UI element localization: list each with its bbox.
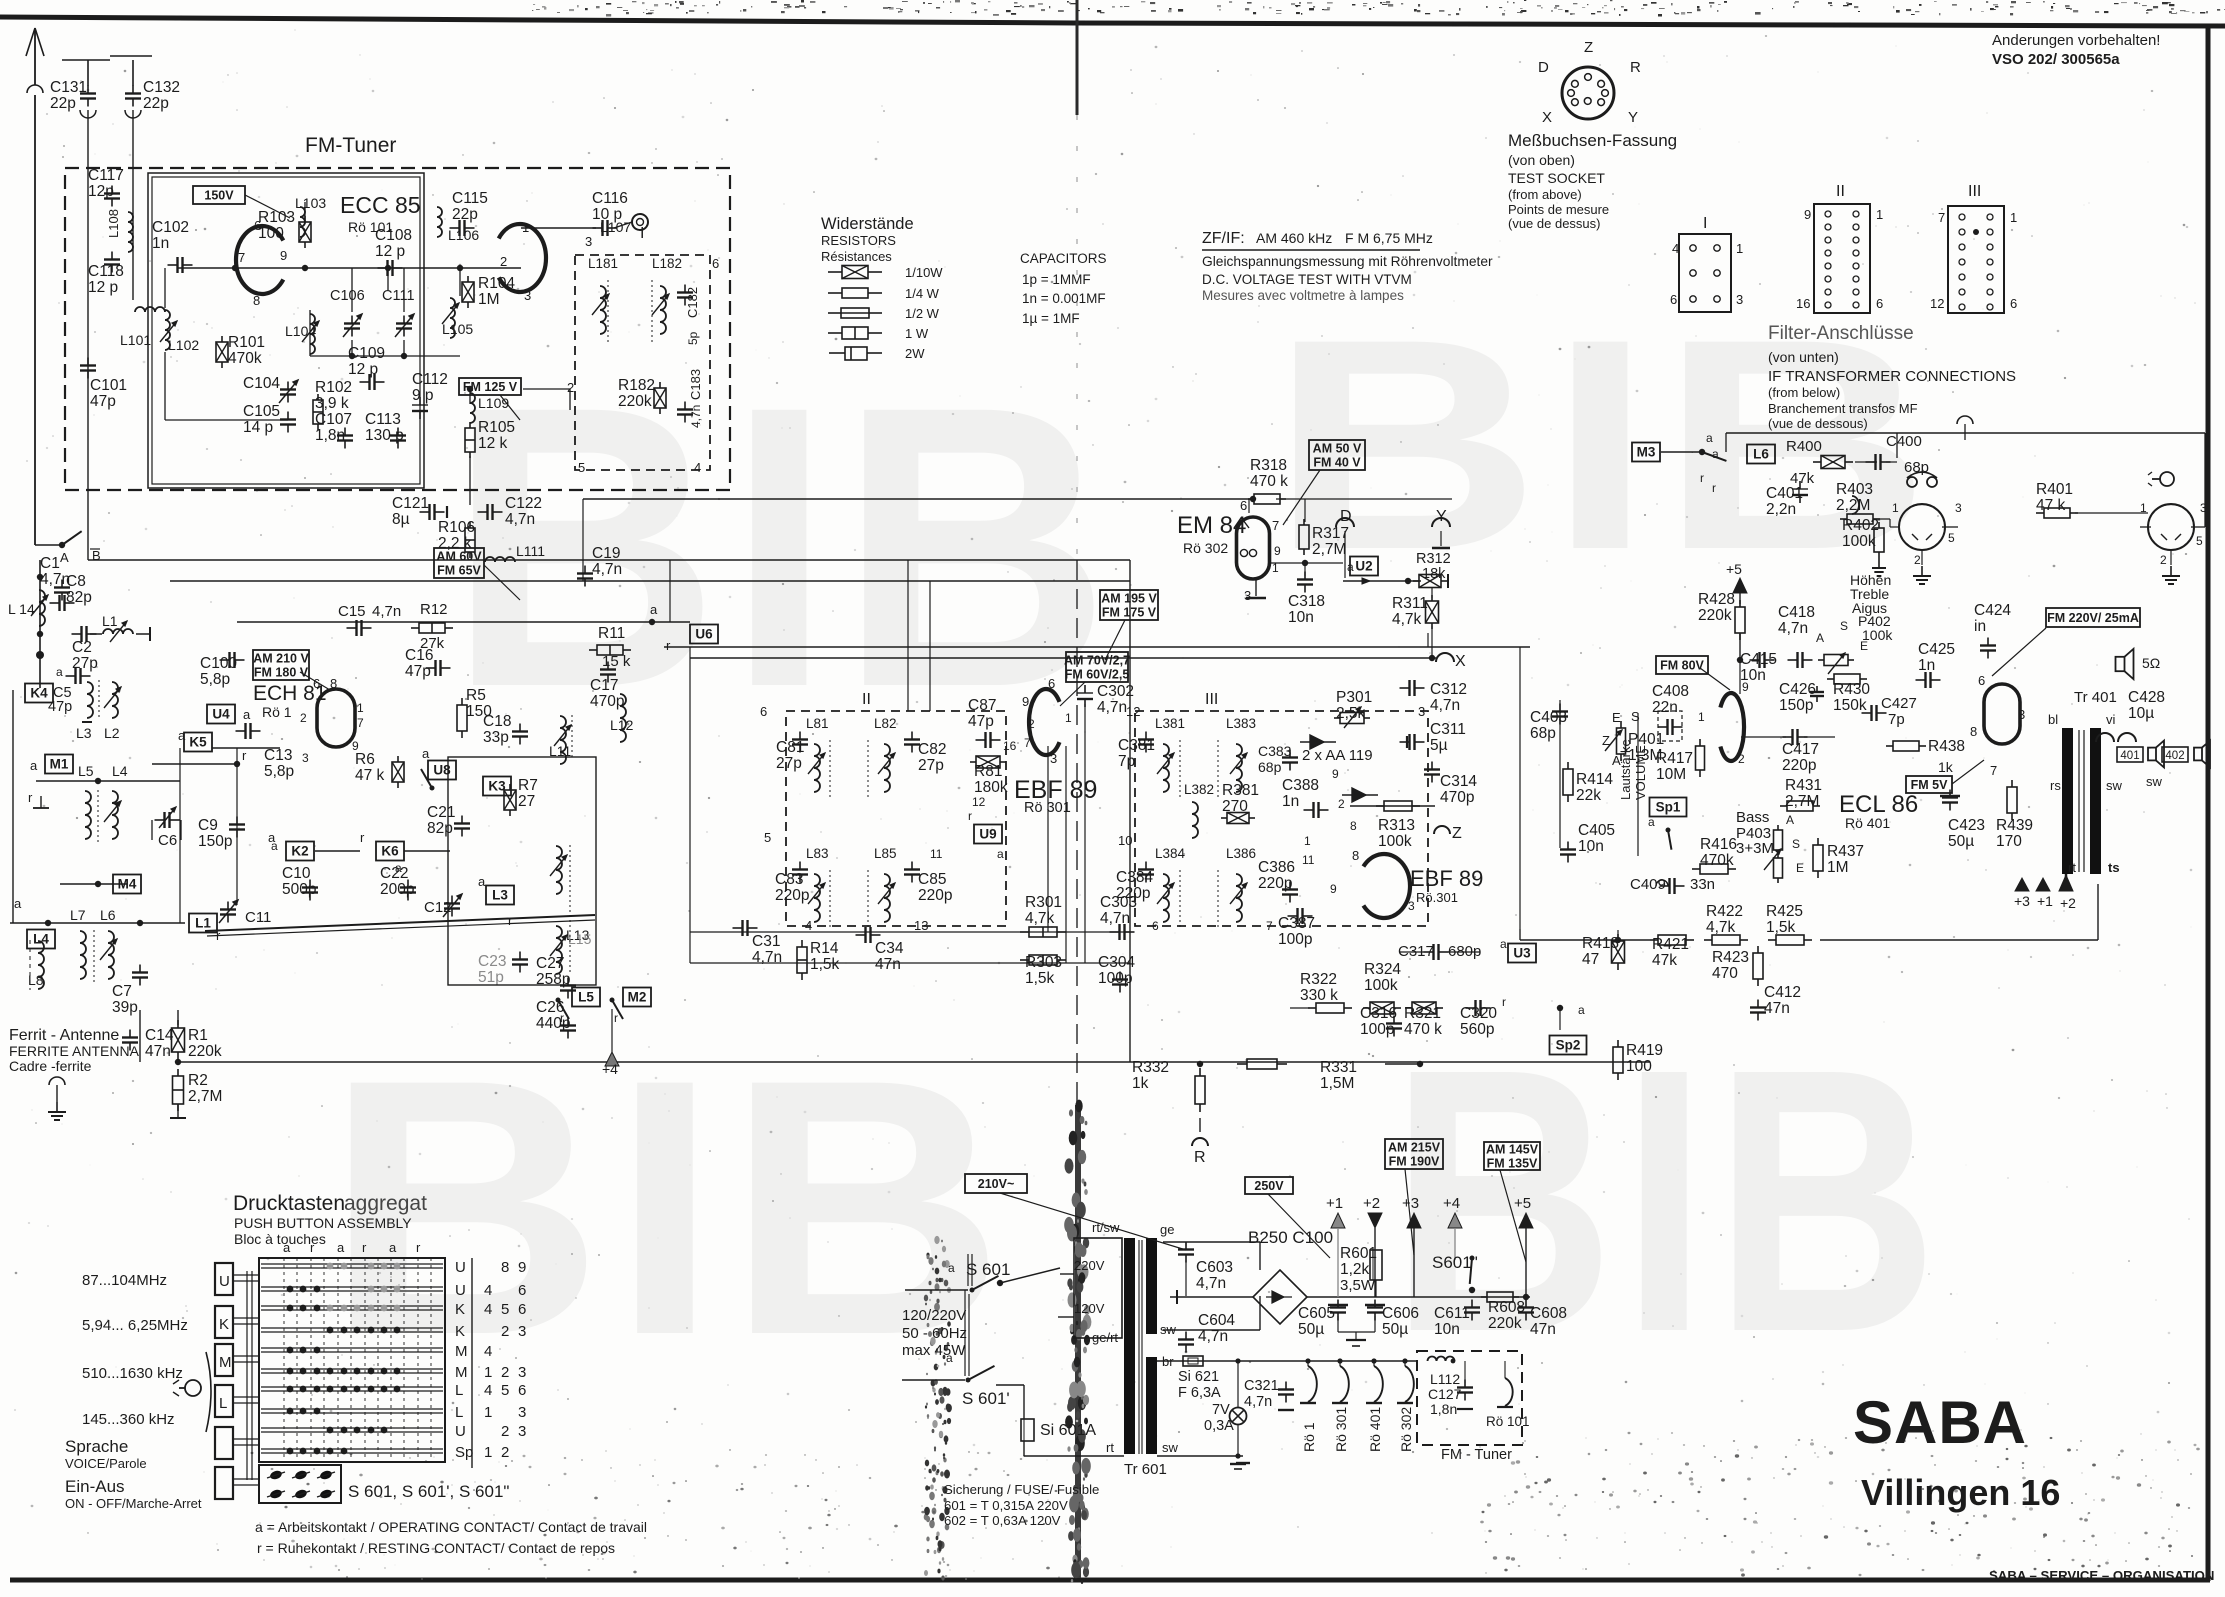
wire <box>80 92 96 94</box>
svg-text:C8: C8 <box>66 573 86 590</box>
wire <box>1185 1332 1187 1340</box>
wire <box>373 374 375 390</box>
box <box>1821 456 1845 469</box>
shape <box>116 801 121 806</box>
svg-text:22k: 22k <box>1576 787 1601 804</box>
shape <box>1253 1270 1307 1324</box>
wire <box>337 434 353 436</box>
wire <box>60 883 127 885</box>
wire <box>1269 562 1343 564</box>
wire <box>1424 773 1440 775</box>
svg-text:a: a <box>30 758 38 773</box>
svg-text:170: 170 <box>1996 833 2022 850</box>
junction <box>314 1448 321 1455</box>
wire <box>1412 805 1420 807</box>
svg-text:C106: C106 <box>330 288 365 304</box>
wire <box>454 827 470 829</box>
wire <box>1481 1007 1491 1009</box>
svg-text:L4: L4 <box>112 763 128 779</box>
wire <box>419 411 421 419</box>
svg-text:ge: ge <box>1160 1222 1174 1237</box>
wire <box>1457 1391 1473 1393</box>
wire <box>1283 470 1320 525</box>
wire <box>1739 660 1741 694</box>
svg-text:C34: C34 <box>875 940 904 957</box>
junction <box>368 1263 375 1270</box>
wire <box>493 511 503 513</box>
wire <box>451 909 453 917</box>
svg-text:Rö 401: Rö 401 <box>1845 815 1890 831</box>
wire <box>1374 1316 1376 1332</box>
stroke <box>87 682 93 718</box>
junction <box>368 1368 375 1375</box>
box <box>1617 728 1626 754</box>
wire <box>403 329 405 337</box>
circle <box>1568 90 1575 97</box>
wire <box>1817 871 1819 878</box>
svg-text:R317: R317 <box>1312 525 1349 542</box>
wire <box>2191 526 2205 528</box>
junction <box>137 920 143 926</box>
box <box>1774 830 1783 850</box>
svg-text:M: M <box>455 1364 468 1381</box>
wire <box>463 220 465 236</box>
svg-text:R601: R601 <box>1340 1245 1377 1262</box>
svg-text:U6: U6 <box>695 627 713 642</box>
svg-text:470 k: 470 k <box>1404 1021 1442 1038</box>
svg-text:IF TRANSFORMER CONNECTIONS: IF TRANSFORMER CONNECTIONS <box>1768 368 2016 385</box>
shape <box>293 380 298 385</box>
wire <box>519 724 521 732</box>
wire <box>1916 679 1926 681</box>
wire <box>1415 741 1425 743</box>
svg-text:r: r <box>560 1011 564 1025</box>
svg-text:R12: R12 <box>420 601 448 618</box>
wire <box>1666 719 1668 735</box>
svg-text:C10: C10 <box>282 865 311 882</box>
wire <box>1394 1007 1401 1009</box>
svg-text:a: a <box>283 1240 291 1255</box>
svg-text:9: 9 <box>1804 207 1811 222</box>
svg-text:III: III <box>1968 183 1981 200</box>
wire <box>878 883 895 904</box>
svg-text:47n: 47n <box>1764 1000 1790 1017</box>
wire <box>1334 717 1340 719</box>
svg-text:R400: R400 <box>1786 438 1822 455</box>
wire <box>2140 526 2151 528</box>
wire <box>558 1000 569 1019</box>
shape <box>122 621 127 626</box>
wire <box>486 504 488 520</box>
svg-text:C13: C13 <box>264 747 292 764</box>
svg-text:L1: L1 <box>102 613 118 629</box>
wire <box>584 566 586 574</box>
wire <box>976 756 1000 768</box>
svg-text:2 x AA 119: 2 x AA 119 <box>1302 747 1373 764</box>
svg-text:L109: L109 <box>478 395 509 411</box>
wire <box>1949 790 1951 798</box>
box <box>193 186 245 204</box>
circle <box>1959 214 1965 220</box>
wire <box>450 227 460 229</box>
box <box>1813 845 1823 871</box>
svg-text:AM 195 V: AM 195 V <box>1101 591 1157 605</box>
circle <box>1598 99 1605 106</box>
box <box>1412 1002 1436 1014</box>
wire <box>1163 1329 1260 1331</box>
wire <box>577 577 593 579</box>
wire <box>39 560 41 688</box>
wire <box>1457 1408 1473 1410</box>
wire <box>1668 830 1671 850</box>
svg-text:47n: 47n <box>145 1043 171 1060</box>
wire <box>261 1263 443 1265</box>
shape <box>562 935 567 940</box>
svg-text:7: 7 <box>1272 518 1279 533</box>
wire <box>411 627 419 629</box>
wire <box>512 958 528 960</box>
wire <box>1866 461 1876 463</box>
wire <box>904 743 920 745</box>
svg-text:3: 3 <box>1408 899 1415 913</box>
shape <box>604 294 609 299</box>
wire <box>104 258 120 260</box>
shape <box>2036 878 2050 891</box>
wire <box>677 291 693 293</box>
svg-text:L: L <box>455 1404 463 1421</box>
svg-text:47n: 47n <box>1530 1321 1556 1338</box>
wire <box>1431 762 1433 770</box>
box <box>1747 445 1775 464</box>
wire <box>177 1104 179 1111</box>
wire <box>236 748 238 905</box>
wire <box>1344 531 1346 578</box>
wire <box>87 99 89 107</box>
wire <box>1386 1027 1402 1029</box>
circle <box>1825 237 1831 243</box>
wire <box>1919 583 1925 585</box>
wire <box>478 511 488 513</box>
wire <box>181 257 183 273</box>
svg-text:1: 1 <box>1698 710 1705 724</box>
wire <box>829 740 831 800</box>
svg-text:FM 135V: FM 135V <box>1487 1156 1538 1170</box>
box <box>1487 1292 1513 1302</box>
wire <box>1304 563 1306 576</box>
svg-text:6: 6 <box>313 676 320 691</box>
wire <box>1304 809 1314 811</box>
svg-text:C108: C108 <box>375 227 412 244</box>
circle <box>1959 289 1965 295</box>
junction <box>1557 1005 1563 1011</box>
svg-text:C417: C417 <box>1782 741 1819 758</box>
wire <box>261 1408 443 1410</box>
svg-text:L: L <box>455 1382 463 1399</box>
wire <box>1525 1228 1527 1297</box>
wire <box>1047 746 1049 932</box>
wire <box>2152 478 2160 480</box>
svg-text:a: a <box>997 847 1004 861</box>
wire <box>904 738 920 740</box>
wire <box>1763 652 1765 668</box>
wire <box>1057 931 1066 933</box>
wire <box>233 1438 259 1440</box>
wire <box>441 667 451 669</box>
svg-text:C321: C321 <box>1244 1378 1279 1394</box>
junction <box>327 1386 334 1393</box>
wire <box>868 332 882 334</box>
svg-text:C127: C127 <box>1428 1386 1462 1402</box>
svg-text:L5: L5 <box>578 990 594 1005</box>
svg-text:Rö 1: Rö 1 <box>262 704 292 720</box>
box <box>1696 746 1705 770</box>
svg-text:11: 11 <box>930 847 943 861</box>
wire <box>1796 729 1798 745</box>
circle <box>1959 259 1965 265</box>
box <box>113 875 141 894</box>
wire <box>972 1276 998 1290</box>
wire <box>344 441 346 449</box>
svg-text:4,7n: 4,7n <box>689 405 703 428</box>
svg-text:K4: K4 <box>30 686 48 701</box>
svg-text:r: r <box>310 1240 315 1255</box>
wire <box>1525 1300 1527 1308</box>
shape <box>1912 534 1918 540</box>
wire <box>1881 461 1891 463</box>
svg-text:2: 2 <box>1914 553 1921 567</box>
wire <box>1112 978 1128 980</box>
wire <box>1470 1258 1472 1284</box>
wire <box>1363 1007 1370 1009</box>
circle <box>1959 304 1965 310</box>
wire <box>1145 862 1147 870</box>
wire <box>1077 692 1093 694</box>
wire <box>1560 853 1576 855</box>
box <box>1021 1419 1034 1441</box>
wire <box>850 347 852 360</box>
circle <box>1853 237 1859 243</box>
svg-text:47: 47 <box>1582 951 1599 968</box>
svg-text:ECC 85: ECC 85 <box>340 192 421 218</box>
wire <box>183 264 193 266</box>
svg-text:470: 470 <box>1712 965 1738 982</box>
wire <box>417 1258 419 1462</box>
svg-text:1 W: 1 W <box>905 326 929 341</box>
wire <box>828 292 842 294</box>
svg-text:C316: C316 <box>1360 1005 1397 1022</box>
box <box>1550 1036 1587 1055</box>
svg-text:4: 4 <box>484 1301 492 1318</box>
wire <box>1199 1118 1201 1132</box>
box <box>1384 801 1412 811</box>
box <box>1563 769 1573 795</box>
svg-text:50µ: 50µ <box>1382 1321 1408 1338</box>
svg-text:39p: 39p <box>112 999 138 1016</box>
svg-text:C111: C111 <box>382 288 415 304</box>
wire <box>87 60 89 86</box>
wire <box>1199 1068 1201 1076</box>
svg-text:47p: 47p <box>968 713 994 730</box>
stroke <box>450 298 455 338</box>
circle <box>1825 289 1831 295</box>
wire <box>219 900 238 923</box>
wire <box>1777 878 1779 883</box>
wire <box>1739 600 1741 607</box>
svg-text:10n: 10n <box>1288 609 1314 626</box>
junction <box>341 1305 348 1312</box>
circle <box>1571 80 1578 87</box>
svg-text:R422: R422 <box>1706 903 1743 920</box>
wire <box>2075 512 2148 514</box>
svg-text:r: r <box>360 830 365 845</box>
box <box>1735 607 1745 633</box>
wire <box>1875 705 1877 721</box>
wire <box>323 1258 325 1462</box>
junction <box>966 1378 971 1383</box>
box <box>299 222 311 242</box>
wire <box>611 1009 613 1052</box>
svg-text:in: in <box>1974 618 1986 635</box>
wire <box>34 30 36 85</box>
svg-text:R401: R401 <box>2036 481 2073 498</box>
svg-text:6: 6 <box>518 1382 526 1399</box>
wire <box>1289 882 1291 890</box>
junction <box>368 1327 375 1334</box>
box <box>1074 1238 1122 1338</box>
svg-text:2: 2 <box>1338 797 1345 811</box>
wire <box>1519 929 1521 940</box>
wire <box>377 1258 379 1462</box>
wire <box>2165 579 2177 581</box>
svg-text:Rö.301: Rö.301 <box>1416 890 1458 905</box>
box <box>1508 944 1536 963</box>
wire <box>1820 939 2098 941</box>
wire <box>828 312 841 314</box>
wire <box>465 439 475 441</box>
wire <box>1740 939 1748 941</box>
svg-text:C314: C314 <box>1440 773 1477 790</box>
wire <box>1757 979 1759 986</box>
shape <box>2156 741 2164 768</box>
wire <box>1178 1253 1194 1255</box>
svg-text:ts: ts <box>2108 860 2120 875</box>
svg-text:2,7M: 2,7M <box>188 1088 222 1105</box>
junction <box>1371 1358 1376 1363</box>
svg-text:2: 2 <box>1028 717 1035 731</box>
wire <box>1405 1007 1412 1009</box>
svg-text:+3: +3 <box>2014 893 2030 909</box>
svg-text:C1: C1 <box>40 555 60 572</box>
wire <box>392 762 404 782</box>
wire <box>1828 653 1845 674</box>
svg-text:L384: L384 <box>1155 846 1186 861</box>
shape <box>2125 649 2134 679</box>
wire <box>690 657 1436 659</box>
junction <box>287 1347 294 1354</box>
svg-text:1/2 W: 1/2 W <box>905 306 940 321</box>
svg-text:+5: +5 <box>1726 561 1742 577</box>
wire <box>1366 1402 1382 1404</box>
wire <box>36 780 180 782</box>
wire <box>1179 740 1181 800</box>
svg-text:Branchement transfos MF: Branchement transfos MF <box>1768 401 1918 416</box>
junction <box>970 1288 975 1293</box>
box <box>148 173 424 488</box>
wire <box>310 1258 312 1462</box>
wire <box>801 973 803 980</box>
wire <box>1878 522 1880 528</box>
wire <box>350 1258 352 1462</box>
box <box>1188 1358 1198 1364</box>
svg-text:3: 3 <box>2200 501 2207 515</box>
svg-text:5: 5 <box>501 1382 509 1399</box>
wire <box>684 298 686 306</box>
wire <box>1232 1410 1244 1422</box>
wire <box>1337 1313 1339 1321</box>
wire <box>792 743 808 745</box>
wire <box>375 381 385 383</box>
wire <box>2011 813 2013 820</box>
wire <box>216 342 228 362</box>
box <box>1658 711 1682 741</box>
wire <box>1552 710 1568 712</box>
wire <box>1303 915 1313 917</box>
wire <box>1464 1393 1466 1401</box>
wire <box>1559 704 1561 712</box>
svg-text:AM 460 kHz: AM 460 kHz <box>1256 230 1332 246</box>
svg-text:max 45W: max 45W <box>902 1342 966 1359</box>
svg-text:rs: rs <box>2050 778 2061 793</box>
junction <box>457 265 463 271</box>
box <box>483 777 511 796</box>
wire <box>451 896 453 904</box>
junction <box>394 1368 401 1375</box>
stroke <box>1505 1378 1513 1406</box>
wire <box>976 739 986 741</box>
wire <box>181 1061 1650 1063</box>
wire <box>233 1402 259 1404</box>
junction <box>232 265 238 271</box>
wire <box>125 97 141 99</box>
box <box>172 1028 185 1052</box>
stroke <box>814 874 820 922</box>
wire <box>748 927 758 929</box>
wire <box>168 812 170 828</box>
wire <box>287 412 289 420</box>
junction <box>1737 657 1743 663</box>
svg-text:+4: +4 <box>1443 1195 1460 1212</box>
svg-text:a = Arbeitskontakt / OPERATIN: a = Arbeitskontakt / OPERATING CONTACT/ … <box>255 1519 647 1535</box>
svg-text:47 k: 47 k <box>2036 497 2066 514</box>
svg-text:M2: M2 <box>628 990 647 1005</box>
wire <box>378 267 388 269</box>
wire <box>976 756 1000 768</box>
wire <box>344 327 360 329</box>
svg-text:3: 3 <box>518 1323 526 1340</box>
wire <box>1431 588 1433 598</box>
stroke <box>485 557 515 562</box>
svg-text:C312: C312 <box>1430 681 1467 698</box>
box <box>1419 575 1441 588</box>
svg-text:a: a <box>243 707 251 722</box>
wire <box>261 1351 443 1353</box>
shape <box>820 883 825 888</box>
wire <box>1342 794 1378 796</box>
wire <box>1658 726 1668 728</box>
wire <box>1559 1008 1561 1030</box>
wire <box>61 593 63 601</box>
svg-text:1: 1 <box>522 220 529 235</box>
